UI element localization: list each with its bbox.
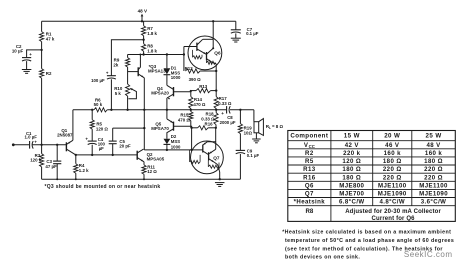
node output junction bbox=[239, 109, 241, 111]
wire bootstrap bbox=[111, 40, 143, 76]
svg-text:R5: R5 bbox=[305, 158, 314, 165]
svg-text:0.1 µF: 0.1 µF bbox=[246, 31, 259, 36]
transistor Q6 bbox=[188, 36, 222, 70]
node Q1 collector junction bbox=[75, 154, 77, 156]
svg-text:2N5087: 2N5087 bbox=[57, 132, 73, 137]
svg-text:MJE1100: MJE1100 bbox=[419, 182, 448, 189]
wire bias net bbox=[128, 54, 184, 56]
ground below speaker bbox=[252, 138, 261, 140]
svg-text:120 Ω: 120 Ω bbox=[342, 158, 361, 165]
svg-text:R2: R2 bbox=[305, 150, 314, 157]
ground below C7 bbox=[231, 37, 241, 39]
resistor R15 bbox=[190, 110, 192, 112]
svg-text:Q6: Q6 bbox=[214, 50, 221, 55]
svg-text:µF: µF bbox=[99, 146, 104, 151]
ground main bbox=[215, 182, 225, 184]
resistor R11 bbox=[143, 162, 145, 165]
svg-text:CC: CC bbox=[309, 144, 315, 149]
svg-text:+: + bbox=[29, 52, 32, 57]
svg-text:47 pF: 47 pF bbox=[45, 164, 57, 169]
svg-text:MPSA05: MPSA05 bbox=[147, 157, 165, 162]
capacitor C6 bootstrap 100uF bbox=[107, 75, 116, 77]
svg-text:220 Ω: 220 Ω bbox=[424, 166, 443, 173]
svg-text:48 V: 48 V bbox=[426, 142, 441, 149]
wire top supply rail bbox=[42, 20, 236, 22]
svg-text:+: + bbox=[221, 111, 224, 116]
svg-text:MPSA13: MPSA13 bbox=[148, 69, 166, 74]
svg-text:48 V: 48 V bbox=[138, 9, 148, 14]
svg-text:4.8°C/W: 4.8°C/W bbox=[379, 199, 405, 206]
svg-text:MJE1100: MJE1100 bbox=[378, 182, 407, 189]
svg-text:MJE1090: MJE1090 bbox=[378, 191, 407, 198]
svg-text:1.8 k: 1.8 k bbox=[147, 31, 157, 36]
wire output rail bbox=[73, 109, 94, 111]
transistor Q5 bbox=[173, 122, 175, 131]
svg-text:R12: R12 bbox=[185, 66, 194, 71]
svg-text:20 W: 20 W bbox=[384, 133, 400, 140]
resistor R8 bbox=[143, 40, 145, 44]
wire Q6 emitter column bbox=[215, 64, 217, 97]
svg-text:SeekIC.com: SeekIC.com bbox=[404, 250, 453, 259]
svg-text:+: + bbox=[106, 71, 109, 76]
wire Q7 collector to ground bbox=[219, 172, 221, 179]
svg-text:120 k: 120 k bbox=[30, 158, 42, 163]
svg-text:2k: 2k bbox=[113, 62, 118, 67]
svg-text:470 Ω: 470 Ω bbox=[178, 117, 191, 122]
diode D1 bbox=[166, 55, 168, 69]
svg-text:Current for Q6: Current for Q6 bbox=[372, 216, 416, 222]
resistor R12 bbox=[185, 69, 200, 73]
resistor R3 bbox=[40, 154, 44, 167]
potentiometer R10 bbox=[126, 84, 130, 96]
svg-text:10 µF: 10 µF bbox=[12, 49, 24, 54]
svg-text:R16: R16 bbox=[303, 174, 316, 181]
svg-text:15 W: 15 W bbox=[344, 133, 360, 140]
resistor R18 bbox=[215, 110, 217, 113]
resistor R1 bbox=[41, 21, 43, 31]
svg-text:0.1 µF: 0.1 µF bbox=[247, 153, 260, 158]
svg-text:220 Ω: 220 Ω bbox=[383, 174, 402, 181]
wire Q7 base bbox=[144, 149, 203, 151]
svg-text:*Heatsink size calculated is b: *Heatsink size calculated is based on a … bbox=[282, 230, 451, 236]
svg-text:temperature of 50°C and a load: temperature of 50°C and a load phase ang… bbox=[285, 238, 454, 244]
svg-text:R13: R13 bbox=[199, 84, 208, 89]
node input junction bbox=[40, 144, 42, 146]
svg-text:20 pF: 20 pF bbox=[119, 144, 131, 149]
svg-text:10Ω: 10Ω bbox=[244, 130, 253, 135]
resistor R4 bbox=[74, 164, 78, 174]
capacitor C3 bbox=[56, 144, 58, 146]
svg-text:42 V: 42 V bbox=[345, 142, 360, 149]
input terminal bbox=[12, 143, 15, 146]
resistor R13 bbox=[191, 90, 196, 92]
svg-text:1.8 k: 1.8 k bbox=[147, 49, 157, 54]
resistor R6 bbox=[94, 108, 107, 112]
node Q3 base bbox=[127, 67, 129, 84]
svg-text:5 k: 5 k bbox=[115, 91, 122, 96]
svg-text:*Heatsink: *Heatsink bbox=[294, 199, 326, 206]
svg-text:180 Ω: 180 Ω bbox=[342, 174, 361, 181]
svg-text:Q7: Q7 bbox=[305, 191, 314, 198]
svg-text:100 µF: 100 µF bbox=[91, 78, 105, 83]
resistor R9 bbox=[127, 55, 129, 58]
svg-text:R2: R2 bbox=[46, 71, 52, 76]
svg-text:220 k: 220 k bbox=[343, 150, 360, 157]
table component values bbox=[288, 131, 456, 222]
svg-text:MJE1090: MJE1090 bbox=[419, 191, 448, 198]
wire Q6 base drop bbox=[183, 47, 185, 72]
svg-text:0.33 Ω: 0.33 Ω bbox=[218, 101, 232, 106]
wire bottom rail bbox=[42, 178, 241, 180]
svg-text:Q7: Q7 bbox=[213, 156, 220, 161]
speaker RL bbox=[253, 110, 255, 122]
capacitor C7 bbox=[235, 21, 237, 29]
svg-text:MPSA70: MPSA70 bbox=[151, 126, 169, 131]
svg-text:Q6: Q6 bbox=[305, 182, 314, 189]
svg-text:*Q3 should be mounted on or ne: *Q3 should be mounted on or near heatsin… bbox=[45, 184, 161, 190]
wire Q1 collector to Q2 base bbox=[76, 154, 137, 156]
ground below C2 bbox=[22, 69, 32, 71]
svg-text:25 W: 25 W bbox=[426, 133, 442, 140]
svg-text:1000: 1000 bbox=[171, 144, 181, 149]
svg-text:R13: R13 bbox=[303, 166, 316, 173]
svg-text:+: + bbox=[85, 136, 88, 141]
capacitor C2 bbox=[27, 50, 42, 58]
svg-text:220 Ω: 220 Ω bbox=[424, 174, 443, 181]
svg-text:12 Ω: 12 Ω bbox=[147, 169, 157, 174]
transistor Q3 bbox=[137, 67, 139, 76]
capacitor C5 bbox=[112, 128, 114, 141]
svg-text:1.2 k: 1.2 k bbox=[79, 168, 89, 173]
svg-text:6.8°C/W: 6.8°C/W bbox=[339, 199, 365, 206]
diode D2 bbox=[164, 139, 171, 144]
transistor Q7 bbox=[191, 141, 224, 174]
svg-text:2000 µF: 2000 µF bbox=[220, 120, 236, 125]
svg-text:Component: Component bbox=[290, 133, 328, 140]
transistor Q4 bbox=[173, 87, 175, 96]
wire C5 to VAS collector bbox=[113, 127, 145, 129]
resistor R17 bbox=[214, 97, 218, 109]
resistor R19 bbox=[239, 110, 241, 124]
resistor R5 bbox=[91, 110, 93, 120]
svg-text:MJE800: MJE800 bbox=[339, 182, 364, 189]
resistor R14 bbox=[190, 91, 192, 97]
svg-text:180 Ω: 180 Ω bbox=[424, 158, 443, 165]
wire Q3 emitter to Q2 collector bbox=[143, 78, 145, 150]
node Q4 base junction bbox=[190, 90, 192, 92]
svg-text:50 k: 50 k bbox=[94, 102, 103, 107]
transistor Q2 bbox=[136, 151, 138, 160]
capacitor C9 bbox=[236, 149, 245, 151]
svg-text:MJE700: MJE700 bbox=[339, 191, 364, 198]
svg-text:180 Ω: 180 Ω bbox=[342, 166, 361, 173]
capacitor C4 bbox=[88, 140, 97, 142]
svg-text:R8: R8 bbox=[305, 208, 313, 215]
svg-text:160 k: 160 k bbox=[425, 150, 442, 157]
node R1-R2 junction bbox=[41, 42, 43, 69]
svg-text:1000: 1000 bbox=[171, 75, 181, 80]
svg-text:160 k: 160 k bbox=[384, 150, 401, 157]
capacitor C1 bbox=[29, 141, 31, 149]
svg-text:220 Ω: 220 Ω bbox=[383, 166, 402, 173]
svg-text:47 k: 47 k bbox=[46, 37, 55, 42]
transistor Q1 bbox=[65, 142, 67, 151]
svg-text:Adjusted for 20-30 mA Collecto: Adjusted for 20-30 mA Collector bbox=[345, 209, 441, 215]
svg-text:120 Ω: 120 Ω bbox=[96, 126, 109, 131]
svg-text:3.6°C/W: 3.6°C/W bbox=[421, 199, 447, 206]
svg-text:390 Ω: 390 Ω bbox=[189, 77, 202, 82]
svg-text:R16: R16 bbox=[205, 121, 214, 126]
svg-text:MPSA20: MPSA20 bbox=[151, 91, 169, 96]
svg-text:180 Ω: 180 Ω bbox=[383, 158, 402, 165]
resistor R2 bbox=[40, 69, 44, 79]
svg-text:= 8 Ω: = 8 Ω bbox=[272, 124, 283, 129]
capacitor C8 bbox=[226, 106, 228, 113]
svg-text:L: L bbox=[269, 126, 271, 130]
svg-text:1.0 µF: 1.0 µF bbox=[25, 135, 38, 140]
resistor R16 bbox=[190, 127, 192, 129]
svg-text:both devices on one sink.: both devices on one sink. bbox=[285, 255, 360, 261]
svg-text:470 Ω: 470 Ω bbox=[193, 102, 206, 107]
resistor R7 bbox=[143, 21, 145, 25]
svg-text:46 V: 46 V bbox=[385, 142, 400, 149]
